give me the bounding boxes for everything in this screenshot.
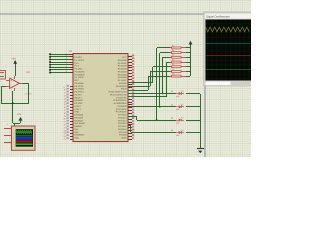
svg-text:7: 7 [66,68,67,71]
svg-text:PC1/T1OSI/CCP2: PC1/T1OSI/CCP2 [110,93,127,96]
svg-text:P2.5/A13: P2.5/A13 [118,119,127,122]
svg-text:P0.5/AD5: P0.5/AD5 [118,73,128,76]
svg-text:P3.7/RD: P3.7/RD [75,102,83,105]
svg-text:RE0/AN5: RE0/AN5 [75,114,84,117]
svg-text:-: - [11,86,12,89]
svg-text:RB0/INT: RB0/INT [75,125,84,128]
svg-text:P0.3/AD3: P0.3/AD3 [118,68,128,71]
svg-text:P1.5/MOSI: P1.5/MOSI [75,70,85,73]
svg-text:P2.0/A8: P2.0/A8 [119,134,127,137]
svg-text:P0.7/AD7: P0.7/AD7 [118,79,128,82]
svg-text:R8: R8 [172,73,174,76]
svg-text:P0.0/AD0: P0.0/AD0 [118,59,128,62]
svg-text:D1: D1 [171,90,173,93]
svg-text:Digital Oscilloscope: Digital Oscilloscope [206,16,230,19]
svg-text:XTAL2: XTAL2 [75,105,82,108]
svg-text:5: 5 [66,62,67,65]
svg-text:GND: GND [75,111,80,114]
svg-text:EA/VPP: EA/VPP [119,82,127,85]
svg-text:+5V: +5V [17,113,22,116]
svg-text:MCLR/VPP: MCLR/VPP [75,122,86,125]
svg-text:P3.0/RXD: P3.0/RXD [75,82,85,85]
svg-text:2: 2 [66,54,67,57]
svg-text:PC0/T1OSO/T1CKI: PC0/T1OSO/T1CKI [109,91,127,94]
svg-text:P3.4/T0: P3.4/T0 [75,93,83,96]
svg-text:P2.6/A14: P2.6/A14 [118,116,127,119]
svg-text:P3.1/TXD: P3.1/TXD [75,85,84,88]
svg-text:3: 3 [66,57,67,60]
svg-text:XTAL1: XTAL1 [75,108,82,111]
svg-text:PC5/SDO: PC5/SDO [118,105,127,108]
svg-text:RB3/PGM: RB3/PGM [75,134,85,137]
svg-text:R7: R7 [172,68,174,71]
svg-text:AVSS: AVSS [121,137,127,140]
svg-text:P0.1/AD1: P0.1/AD1 [118,62,128,65]
svg-text:D1: D1 [171,129,173,132]
svg-text:P2.3/A11: P2.3/A11 [118,125,127,128]
svg-text:VCC: VCC [122,56,127,59]
svg-text:P2.1/A9: P2.1/A9 [119,131,127,134]
svg-text:P3.3/INT1: P3.3/INT1 [75,91,85,94]
svg-text:PC3/SCK/SCL: PC3/SCK/SCL [113,99,127,102]
svg-text:4: 4 [66,60,67,63]
svg-text:PSEN: PSEN [121,88,127,91]
svg-text:RE2/AN7: RE2/AN7 [75,119,84,122]
svg-text:P0.6/AD6: P0.6/AD6 [118,76,128,79]
svg-text:PC4/SDI/SDA: PC4/SDI/SDA [114,102,127,105]
svg-text:D1: D1 [171,103,173,106]
svg-text:PC2/CCP1: PC2/CCP1 [116,96,127,99]
svg-text:+5V: +5V [12,57,17,60]
svg-text:PC7/RX/DT: PC7/RX/DT [116,111,127,114]
svg-text:8: 8 [66,70,67,73]
svg-text:R5: R5 [172,58,174,61]
svg-text:P3.2/INT0: P3.2/INT0 [75,88,85,91]
svg-text:P2.7/A15: P2.7/A15 [118,114,127,117]
svg-text:1: 1 [66,52,67,55]
svg-text:P1.6/MISO: P1.6/MISO [75,73,85,76]
svg-text:R4: R4 [172,54,174,57]
svg-text:PC6/TX/CK: PC6/TX/CK [116,108,127,111]
svg-text:ALE/PROG: ALE/PROG [116,85,127,88]
svg-text:P1.4/SS: P1.4/SS [75,68,83,71]
svg-text:R6: R6 [172,63,174,66]
svg-text:P2.4/A12: P2.4/A12 [118,122,127,125]
svg-text:P1.0/T2: P1.0/T2 [75,56,83,59]
svg-text:R3: R3 [172,49,174,52]
svg-text:P1.7/SCK: P1.7/SCK [75,76,85,79]
svg-text:R2: R2 [172,44,174,47]
svg-text:RE1/AN6: RE1/AN6 [75,116,84,119]
svg-text:P0.2/AD2: P0.2/AD2 [118,65,128,68]
svg-text:P2.2/A10: P2.2/A10 [118,128,127,131]
svg-text:P1.1/T2EX: P1.1/T2EX [75,59,86,62]
svg-text:P3.5/T1: P3.5/T1 [75,96,83,99]
svg-text:6: 6 [66,65,67,68]
svg-text:D1: D1 [171,117,173,120]
svg-text:P3.6/WR: P3.6/WR [75,99,84,102]
svg-text:P0.4/AD4: P0.4/AD4 [118,70,128,73]
